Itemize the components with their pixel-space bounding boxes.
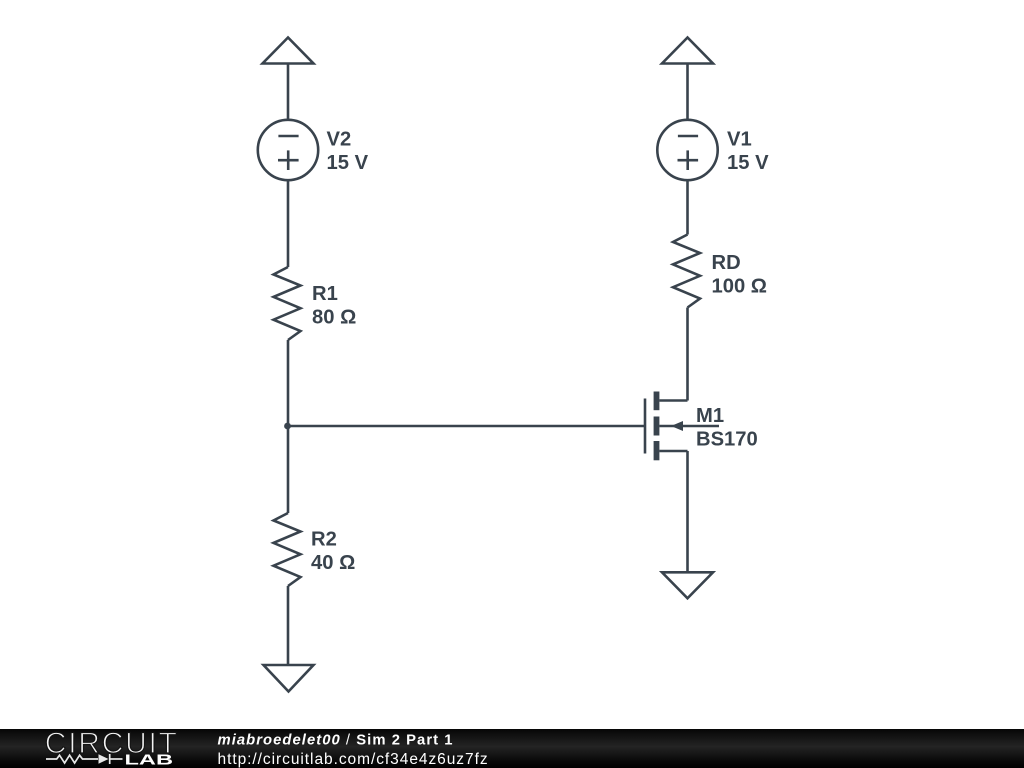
svg-text:RD: RD xyxy=(712,252,741,274)
svg-text:BS170: BS170 xyxy=(696,429,758,451)
svg-text:15 V: 15 V xyxy=(727,152,769,174)
wire RD to drain xyxy=(686,308,689,401)
wire V1 to RD xyxy=(686,181,689,235)
resistor R1 xyxy=(274,267,301,340)
svg-text:V1: V1 xyxy=(727,129,752,151)
svg-text:V2: V2 xyxy=(327,129,352,151)
resistor R2 xyxy=(274,513,301,586)
node junction xyxy=(284,423,291,430)
wire R2 to ground xyxy=(287,586,290,665)
voltage source V1 xyxy=(657,120,717,180)
voltage source V2 xyxy=(258,120,318,180)
svg-text:40 Ω: 40 Ω xyxy=(311,552,355,574)
wire R1 to node xyxy=(287,340,290,426)
logo resistor-diode art xyxy=(46,754,123,764)
power flag VDD right xyxy=(662,38,713,120)
svg-text:15 V: 15 V xyxy=(327,152,369,174)
resistor RD xyxy=(673,235,700,308)
svg-text:miabroedelet00 / Sim 2 Part 1: miabroedelet00 / Sim 2 Part 1 xyxy=(218,733,454,749)
svg-text:R1: R1 xyxy=(312,283,338,305)
svg-text:http://circuitlab.com/cf34e4z6: http://circuitlab.com/cf34e4z6uz7fz xyxy=(218,751,489,768)
transistor M1 xyxy=(645,392,719,461)
svg-text:80 Ω: 80 Ω xyxy=(312,307,356,329)
wire source to ground xyxy=(686,451,689,572)
svg-text:M1: M1 xyxy=(696,405,724,427)
power flag VDD left xyxy=(263,38,314,120)
wire V2 to R1 xyxy=(287,181,290,268)
wire node to gate xyxy=(288,425,645,428)
ground right xyxy=(662,572,713,598)
ground left xyxy=(264,665,314,692)
svg-text:100 Ω: 100 Ω xyxy=(712,276,767,298)
svg-text:R2: R2 xyxy=(311,529,337,551)
svg-text:LAB: LAB xyxy=(125,752,174,768)
footer bar xyxy=(0,727,1024,768)
wire node to R2 xyxy=(287,426,290,513)
